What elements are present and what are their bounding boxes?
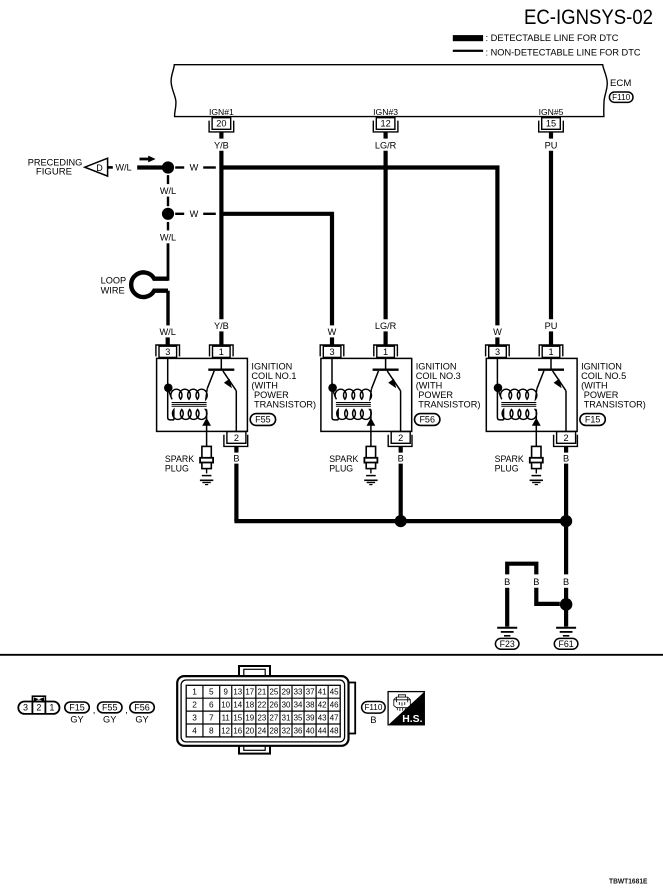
wire B coil no.3 to bus bbox=[399, 464, 403, 521]
ECM connector F110 pin grid bbox=[186, 685, 340, 737]
svg-text:POWER: POWER bbox=[418, 390, 453, 400]
svg-text:21: 21 bbox=[258, 688, 267, 697]
wire stub into coil pin 1 bbox=[549, 331, 553, 344]
ECM terminal 15 box bbox=[542, 118, 561, 130]
wire B main down from bus bbox=[564, 521, 568, 574]
svg-text:W/L: W/L bbox=[115, 163, 131, 173]
svg-text:W: W bbox=[493, 327, 502, 337]
ECM terminal 20 bracket bbox=[209, 121, 234, 132]
svg-text:LOOP: LOOP bbox=[101, 275, 127, 285]
svg-text:10: 10 bbox=[221, 701, 230, 710]
transistor Q3 base wire from pin 1 bbox=[385, 358, 387, 369]
svg-text:20: 20 bbox=[216, 119, 226, 129]
coil no.3 internal junction dot bbox=[328, 384, 337, 393]
svg-text:11: 11 bbox=[222, 713, 230, 722]
coil no.3 core lines bbox=[336, 402, 371, 404]
spark plug no.5 ground bbox=[530, 479, 543, 481]
svg-text:IGNITION: IGNITION bbox=[251, 362, 292, 372]
ignition coil no.3 block outline bbox=[321, 358, 412, 431]
wire B right leg bbox=[564, 588, 568, 600]
svg-text:POWER: POWER bbox=[254, 390, 289, 400]
svg-text:FIGURE: FIGURE bbox=[36, 167, 72, 177]
coil no.1 connector F55 oval bbox=[250, 414, 275, 426]
coil no.3 pin 1 box bbox=[377, 346, 395, 357]
svg-text:B: B bbox=[533, 577, 539, 587]
wire Y/B vertical (detectable) bbox=[219, 151, 223, 319]
svg-text:3: 3 bbox=[23, 703, 28, 713]
svg-text:14: 14 bbox=[233, 701, 242, 710]
svg-text:2: 2 bbox=[234, 433, 239, 443]
spark plug no.3 wire bbox=[370, 431, 372, 446]
svg-text:LG/R: LG/R bbox=[375, 141, 397, 151]
svg-text:48: 48 bbox=[330, 726, 339, 735]
svg-text:GY: GY bbox=[103, 715, 116, 725]
svg-text:IGN#3: IGN#3 bbox=[373, 107, 398, 117]
coil no.5 secondary output wire with arrow bbox=[535, 410, 537, 432]
svg-text:40: 40 bbox=[306, 726, 315, 735]
svg-text:25: 25 bbox=[270, 688, 279, 697]
svg-text:28: 28 bbox=[270, 726, 279, 735]
svg-text:W/L: W/L bbox=[160, 232, 176, 242]
svg-text:PLUG: PLUG bbox=[329, 464, 353, 474]
coil no.5 pin 2 box bbox=[557, 432, 576, 444]
svg-text:B: B bbox=[563, 453, 569, 463]
coil no.1 pin 3 bracket bbox=[156, 345, 180, 356]
svg-text:F56: F56 bbox=[419, 415, 435, 425]
svg-text:(WITH: (WITH bbox=[251, 381, 278, 391]
junction node 2 bbox=[162, 208, 174, 220]
off-page connector triangle D bbox=[85, 158, 108, 176]
coil no.1 core lines bbox=[172, 402, 207, 404]
svg-text:POWER: POWER bbox=[584, 390, 619, 400]
coil no.3 pin 1 bracket bbox=[374, 345, 398, 356]
ECM connector F110 inner shell bbox=[181, 680, 345, 742]
coil no.5 core lines bbox=[501, 402, 536, 404]
svg-text:16: 16 bbox=[233, 726, 242, 735]
svg-text:(WITH: (WITH bbox=[581, 381, 608, 391]
coil no.5 secondary winding bbox=[502, 410, 537, 420]
wire B stub below coil no.3 bbox=[399, 446, 403, 452]
transistor Q5 base wire from pin 1 bbox=[550, 358, 552, 369]
svg-text:37: 37 bbox=[306, 688, 315, 697]
coil no.1 secondary output wire with arrow bbox=[206, 410, 208, 432]
svg-text:3: 3 bbox=[165, 347, 170, 357]
svg-text:: NON-DETECTABLE LINE FOR DTC: : NON-DETECTABLE LINE FOR DTC bbox=[486, 48, 641, 59]
ECM connector F110 outer shell bbox=[177, 676, 348, 746]
svg-text:24: 24 bbox=[258, 726, 267, 735]
coil no.3 pin 2 bracket bbox=[388, 435, 412, 447]
svg-text:COIL NO.3: COIL NO.3 bbox=[416, 371, 461, 381]
coil no.5 emitter wire to pin 2 bbox=[565, 391, 567, 432]
coil no.3 internal wire left down bbox=[332, 390, 338, 420]
svg-text:ECM: ECM bbox=[610, 78, 631, 89]
svg-text:F56: F56 bbox=[134, 703, 150, 713]
spark plug no.5 wire bbox=[535, 431, 537, 446]
dashed wire W segment row2 bbox=[175, 213, 184, 215]
connector F15 oval bbox=[65, 702, 90, 713]
svg-text:2: 2 bbox=[192, 700, 197, 710]
svg-text:Y/B: Y/B bbox=[214, 141, 229, 151]
ECM connector F110 top tab bbox=[239, 666, 270, 678]
coil no.3 internal wire from pin 3 bbox=[331, 358, 333, 385]
svg-text:3: 3 bbox=[330, 347, 335, 357]
svg-text:43: 43 bbox=[318, 713, 327, 722]
legend detectable line symbol bbox=[453, 35, 483, 41]
svg-text:F15: F15 bbox=[585, 415, 601, 425]
transistor Q1 emitter with arrow bbox=[223, 371, 236, 391]
ECM terminal 12 bracket bbox=[373, 121, 398, 132]
svg-text:GY: GY bbox=[70, 715, 83, 725]
spark plug no.1 symbol bbox=[202, 446, 211, 457]
svg-text:13: 13 bbox=[233, 688, 242, 697]
current-flow arrow bbox=[140, 158, 150, 161]
svg-text:12: 12 bbox=[221, 726, 230, 735]
coil no.3 pin 2 box bbox=[391, 432, 410, 444]
legend non-detectable line symbol bbox=[453, 50, 483, 52]
svg-text:15: 15 bbox=[546, 119, 556, 129]
coil no.1 pin 2 bracket bbox=[224, 435, 248, 447]
ECM terminal 15 bracket bbox=[539, 121, 564, 132]
ECM terminal 12 box bbox=[376, 118, 395, 130]
svg-text:TRANSISTOR): TRANSISTOR) bbox=[254, 400, 316, 410]
wire stub below terminal 15 bbox=[549, 132, 553, 139]
connector view 3-2-1 keyway bbox=[32, 696, 45, 702]
transistor Q3 base bar bbox=[373, 369, 399, 371]
svg-text:3: 3 bbox=[495, 347, 500, 357]
ECM connector F110 right latch bbox=[347, 683, 356, 734]
svg-text:,: , bbox=[125, 704, 128, 715]
coil no.1 pin 2 box bbox=[227, 432, 246, 444]
wire W/L to loop bbox=[167, 243, 170, 280]
svg-text:4: 4 bbox=[192, 725, 197, 735]
junction node bus/coil3 bbox=[395, 515, 407, 527]
svg-text:39: 39 bbox=[306, 713, 315, 722]
svg-text:1: 1 bbox=[192, 687, 197, 697]
svg-text:,: , bbox=[93, 704, 96, 715]
svg-text:PU: PU bbox=[545, 141, 558, 151]
svg-text:17: 17 bbox=[245, 688, 254, 697]
svg-text:PU: PU bbox=[545, 321, 558, 331]
connector F110 oval (bottom) bbox=[362, 702, 386, 714]
svg-text:15: 15 bbox=[233, 713, 242, 722]
transistor Q5 base bar bbox=[538, 369, 564, 371]
coil no.5 pin 3 stub bbox=[495, 337, 499, 344]
svg-text:38: 38 bbox=[306, 701, 315, 710]
wire B left leg to ground F23 bbox=[505, 588, 509, 627]
svg-text:EC-IGNSYS-02: EC-IGNSYS-02 bbox=[524, 5, 653, 29]
svg-text:1: 1 bbox=[219, 347, 224, 357]
svg-text:F55: F55 bbox=[255, 415, 271, 425]
svg-text:9: 9 bbox=[224, 688, 229, 697]
wire stub below terminal 20 bbox=[219, 132, 223, 139]
dashed wire W/L below junction 2 bbox=[167, 222, 169, 231]
spark plug no.3 ground bbox=[364, 479, 377, 481]
svg-text:19: 19 bbox=[245, 713, 254, 722]
coil no.5 pin 1 bracket bbox=[539, 345, 563, 356]
svg-text:(WITH: (WITH bbox=[416, 381, 443, 391]
svg-text:3: 3 bbox=[192, 713, 197, 723]
junction node at F61 bbox=[560, 598, 573, 611]
coil no.1 pin 1 box bbox=[213, 346, 231, 357]
svg-text:23: 23 bbox=[258, 713, 267, 722]
junction node bus/coil5 bbox=[560, 515, 572, 527]
svg-text:TBWT1681E: TBWT1681E bbox=[609, 879, 648, 886]
coil no.1 pin 1 bracket bbox=[210, 345, 234, 356]
junction node 1 bbox=[162, 161, 174, 173]
coil no.3 pin 3 box bbox=[323, 346, 341, 357]
transistor Q1 base wire from pin 1 bbox=[220, 358, 222, 369]
svg-text:W: W bbox=[190, 163, 199, 173]
ground symbol F61 bbox=[556, 627, 576, 629]
coil no.5 internal junction dot bbox=[494, 384, 503, 393]
coil no.1 secondary winding bbox=[172, 410, 206, 420]
coil no.1 internal junction dot bbox=[164, 384, 173, 393]
svg-text:46: 46 bbox=[330, 701, 339, 710]
transistor Q1 collector bbox=[207, 371, 214, 389]
branch loop top bbox=[507, 564, 536, 575]
wire stub below terminal 12 bbox=[384, 132, 388, 139]
wire B stub below coil no.5 bbox=[564, 446, 568, 452]
svg-text:34: 34 bbox=[294, 701, 303, 710]
wire stub into coil pin 1 bbox=[219, 331, 223, 344]
coil no.3 secondary winding bbox=[337, 410, 372, 420]
wire B coil no.5 to bus bbox=[564, 464, 568, 521]
ignition coil no.5 block outline bbox=[486, 358, 577, 431]
spark plug no.1 wire bbox=[206, 431, 208, 446]
coil no.5 pin 3 bracket bbox=[486, 345, 510, 356]
svg-text:Y/B: Y/B bbox=[214, 321, 229, 331]
wire W/L loop to coil no.1 (detectable) bbox=[166, 291, 169, 326]
svg-text:W: W bbox=[328, 327, 337, 337]
svg-text:GY: GY bbox=[135, 715, 148, 725]
svg-text:47: 47 bbox=[330, 713, 339, 722]
transistor Q1 base bar bbox=[208, 369, 234, 371]
svg-text:TRANSISTOR): TRANSISTOR) bbox=[584, 400, 646, 410]
svg-text:12: 12 bbox=[380, 119, 390, 129]
separator line bbox=[0, 654, 663, 656]
svg-text:F15: F15 bbox=[69, 703, 85, 713]
svg-text:41: 41 bbox=[318, 688, 327, 697]
svg-text:26: 26 bbox=[270, 701, 279, 710]
ECM terminal 20 box bbox=[212, 118, 231, 130]
H.S. data link icon bbox=[388, 692, 424, 725]
ECM box U1 bbox=[171, 65, 607, 117]
connector F55 oval bbox=[98, 702, 123, 713]
coil no.5 pin 3 box bbox=[489, 346, 507, 357]
spark plug no.1 ground bbox=[200, 479, 213, 481]
coil no.5 internal wire left down bbox=[497, 390, 503, 420]
svg-text:30: 30 bbox=[282, 701, 291, 710]
svg-text:IGN#1: IGN#1 bbox=[209, 107, 234, 117]
wire W/L to junction (detectable) bbox=[137, 165, 164, 169]
wire stub into coil pin 1 bbox=[384, 331, 388, 344]
coil no.5 pin 1 box bbox=[542, 346, 560, 357]
coil no.3 emitter wire to pin 2 bbox=[400, 391, 402, 432]
svg-text:W: W bbox=[190, 209, 199, 219]
coil no.5 connector F15 oval bbox=[580, 414, 605, 426]
coil no.5 primary winding bbox=[498, 389, 537, 400]
coil no.1 pin 3 box bbox=[159, 346, 177, 357]
svg-text:27: 27 bbox=[270, 713, 279, 722]
svg-text:F55: F55 bbox=[102, 703, 118, 713]
svg-text:35: 35 bbox=[294, 713, 303, 722]
svg-text:IGNITION: IGNITION bbox=[581, 362, 622, 372]
ignition coil no.1 block outline bbox=[157, 358, 248, 431]
svg-text:7: 7 bbox=[209, 713, 214, 723]
coil no.1 internal wire from pin 3 bbox=[167, 358, 169, 385]
coil no.1 internal wire left down bbox=[168, 390, 174, 420]
wire to ground F61 bbox=[564, 608, 568, 627]
svg-text:1: 1 bbox=[383, 347, 388, 357]
ground connector F23 oval bbox=[495, 638, 519, 649]
svg-text:W/L: W/L bbox=[160, 327, 176, 337]
coil no.3 connector F56 oval bbox=[415, 414, 440, 426]
svg-text:5: 5 bbox=[209, 687, 214, 697]
dashed wire W segment row1 bbox=[175, 166, 184, 168]
ground bus wire bbox=[234, 519, 566, 523]
svg-text:W/L: W/L bbox=[160, 186, 176, 196]
transistor Q3 collector bbox=[372, 371, 379, 389]
spark plug no.3 symbol bbox=[366, 446, 375, 457]
transistor Q5 collector bbox=[537, 371, 544, 389]
ground symbol F23 bbox=[497, 627, 517, 629]
svg-text:PLUG: PLUG bbox=[495, 464, 519, 474]
svg-text:: DETECTABLE LINE FOR DTC: : DETECTABLE LINE FOR DTC bbox=[486, 33, 619, 44]
svg-text:2: 2 bbox=[564, 433, 569, 443]
wire LG/R vertical (detectable) bbox=[384, 151, 388, 319]
svg-text:F61: F61 bbox=[559, 639, 574, 649]
svg-text:B: B bbox=[504, 577, 510, 587]
wire stub from triangle bbox=[108, 166, 113, 169]
coil no.1 primary winding bbox=[169, 389, 208, 400]
wire B middle leg to junction bbox=[536, 588, 560, 604]
wire B coil no.1 to bus bbox=[234, 464, 238, 521]
svg-text:COIL NO.5: COIL NO.5 bbox=[581, 371, 626, 381]
svg-text:8: 8 bbox=[209, 725, 214, 735]
svg-text:1: 1 bbox=[49, 703, 54, 713]
transistor Q5 emitter with arrow bbox=[553, 371, 566, 391]
transistor Q3 emitter with arrow bbox=[387, 371, 400, 391]
spark plug no.5 symbol bbox=[532, 446, 541, 457]
svg-text:F110: F110 bbox=[612, 93, 630, 102]
connector view 3-2-1 shell bbox=[18, 702, 59, 714]
wire B stub below coil no.1 bbox=[234, 446, 238, 452]
svg-text:TRANSISTOR): TRANSISTOR) bbox=[418, 400, 480, 410]
svg-text:18: 18 bbox=[245, 701, 254, 710]
ECM connector F110 oval bbox=[609, 92, 633, 102]
dashed wire W/L between junctions bbox=[167, 175, 169, 184]
ECM connector F110 bottom tab bbox=[239, 744, 270, 754]
svg-text:22: 22 bbox=[258, 701, 267, 710]
ground connector F61 oval bbox=[554, 638, 578, 649]
svg-text:33: 33 bbox=[294, 688, 303, 697]
svg-text:2: 2 bbox=[398, 433, 403, 443]
svg-text:H.S.: H.S. bbox=[402, 714, 422, 725]
coil no.3 pin 3 bracket bbox=[320, 345, 344, 356]
svg-text:45: 45 bbox=[330, 688, 339, 697]
coil no.3 primary winding bbox=[333, 389, 372, 400]
svg-text:LG/R: LG/R bbox=[375, 321, 397, 331]
svg-text:B: B bbox=[398, 453, 404, 463]
coil no.3 pin 3 stub bbox=[330, 337, 334, 344]
svg-text:WIRE: WIRE bbox=[101, 285, 125, 295]
coil no.3 secondary output wire with arrow bbox=[370, 410, 372, 432]
svg-text:31: 31 bbox=[282, 713, 291, 722]
svg-text:COIL NO.1: COIL NO.1 bbox=[251, 371, 296, 381]
coil no.5 internal wire from pin 3 bbox=[496, 358, 498, 385]
coil no.1 emitter wire to pin 2 bbox=[235, 391, 237, 432]
coil no.5 pin 2 bracket bbox=[554, 435, 578, 447]
wire PU vertical (detectable) bbox=[549, 151, 553, 319]
svg-text:44: 44 bbox=[318, 726, 327, 735]
svg-text:IGNITION: IGNITION bbox=[416, 362, 457, 372]
svg-text:29: 29 bbox=[282, 688, 291, 697]
svg-text:2: 2 bbox=[36, 703, 41, 713]
wire W row2 to coil no.3 (detectable) bbox=[223, 214, 332, 326]
svg-text:B: B bbox=[233, 453, 239, 463]
connector F56 oval bbox=[130, 702, 155, 713]
svg-text:IGN#5: IGN#5 bbox=[539, 107, 564, 117]
loop wire symbol bbox=[131, 272, 168, 297]
svg-text:36: 36 bbox=[294, 726, 303, 735]
svg-text:42: 42 bbox=[318, 701, 327, 710]
svg-text:PLUG: PLUG bbox=[165, 464, 189, 474]
connector view 3-2-1 dividers bbox=[31, 702, 33, 714]
svg-text:1: 1 bbox=[548, 347, 553, 357]
svg-text:B: B bbox=[370, 715, 376, 725]
wire W row1 to coil no.5 (detectable) bbox=[223, 168, 497, 326]
svg-text:B: B bbox=[563, 577, 569, 587]
svg-text:F110: F110 bbox=[364, 703, 382, 712]
svg-text:F23: F23 bbox=[500, 639, 515, 649]
svg-text:D: D bbox=[96, 163, 103, 173]
svg-text:32: 32 bbox=[282, 726, 291, 735]
coil no.1 pin 3 stub bbox=[166, 337, 170, 344]
svg-text:20: 20 bbox=[245, 726, 254, 735]
svg-text:6: 6 bbox=[209, 700, 214, 710]
